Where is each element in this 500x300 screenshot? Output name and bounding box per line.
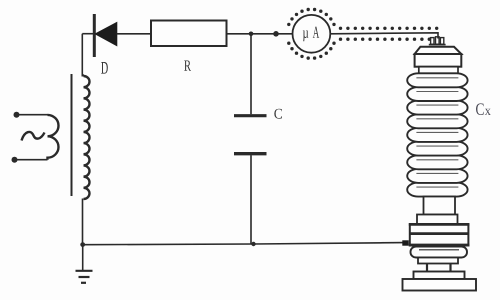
capacitor C bottom plate [234, 152, 267, 155]
ground [76, 245, 93, 283]
shield dotted line bottom [339, 38, 342, 41]
bushing Cx: tap terminal [402, 240, 408, 245]
node: junction dot bottom-left [80, 242, 85, 247]
wire: diode anode lead [82, 33, 94, 35]
wire: shielded lead to Cx [331, 33, 439, 39]
wire: coil top hook [82, 75, 83, 77]
resistor R body [151, 21, 227, 47]
secondary coil [84, 76, 90, 199]
wire: resistor to meter [227, 33, 293, 35]
wire: left vertical (secondary top to diode) [81, 34, 83, 77]
bushing sheds [407, 183, 467, 197]
bushing Cx: head band [415, 54, 462, 67]
wire: primary top lead [17, 114, 48, 116]
bushing Cx: support band [418, 258, 458, 264]
bushing Cx: top terminal crown [429, 37, 446, 45]
shield dotted line top [339, 27, 342, 30]
bushing Cx: support legs [426, 264, 428, 272]
microammeter body [293, 15, 331, 53]
bushing Cx: lower cylinder [424, 197, 456, 215]
label R [184, 60, 191, 70]
label D [101, 62, 108, 74]
node: junction dot at capacitor branch [249, 32, 254, 37]
bushing Cx: base plate [414, 272, 465, 280]
bushing Cx: head step [419, 67, 458, 74]
wire: diode to resistor [117, 33, 151, 35]
diode D cathode bar [93, 14, 96, 57]
node: junction dot bottom-center [251, 242, 255, 246]
AC sine symbol [22, 132, 45, 141]
meter shield dot ring [332, 42, 335, 45]
wire: secondary bottom to rail [82, 199, 84, 245]
label Cx [476, 103, 484, 115]
label C [274, 109, 282, 119]
bushing Cx: top dome [415, 47, 462, 54]
AC source terminal bottom [12, 157, 18, 163]
bushing Cx: lower shed [411, 247, 468, 258]
bushing Cx: mounting box [417, 215, 458, 225]
wire: capacitor top lead [250, 34, 252, 114]
microammeter label [303, 30, 309, 41]
bushing Cx: foundation plate [403, 279, 477, 291]
diode D triangle [95, 22, 117, 45]
transformer core [71, 74, 73, 196]
node: junction dot at meter input [273, 31, 279, 37]
bushing Cx: flange assembly [410, 224, 469, 245]
primary coil [48, 115, 59, 160]
wire: bottom rail [83, 243, 405, 245]
capacitor C top plate [234, 114, 267, 117]
AC source terminal top [14, 112, 20, 118]
wire: primary bottom lead [15, 159, 48, 161]
wire: capacitor bottom lead [250, 155, 252, 244]
